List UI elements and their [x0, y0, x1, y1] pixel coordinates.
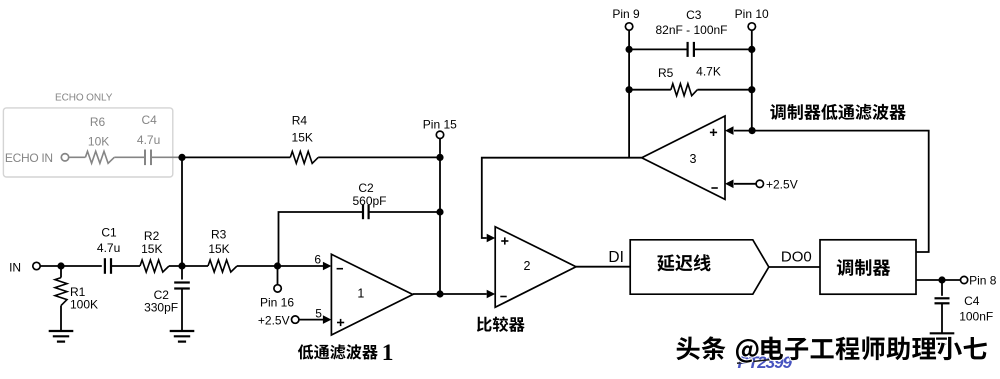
ECHO ONLY enclosure box — [3, 108, 172, 177]
wire pin 6 input — [278, 265, 324, 267]
svg-text:DO0: DO0 — [781, 249, 812, 266]
wire pin 5 input — [299, 319, 324, 321]
svg-text:4.7u: 4.7u — [97, 241, 120, 255]
wire — [114, 156, 145, 158]
svg-text:5: 5 — [315, 307, 322, 321]
svg-text:Pin 16: Pin 16 — [260, 295, 294, 309]
node op1 input junction — [274, 262, 281, 269]
svg-text:R3: R3 — [211, 228, 227, 242]
node C3 left — [626, 46, 633, 53]
svg-text:2: 2 — [524, 259, 531, 273]
svg-text:C2: C2 — [358, 181, 374, 195]
label 调制器低通滤波器 — [770, 104, 785, 120]
wire op2 output — [576, 266, 630, 268]
wire op1 output — [413, 293, 487, 295]
node C2 feedback junction — [436, 208, 443, 215]
wire from op3 output to op2 + input — [482, 158, 642, 238]
svg-text:+2.5V: +2.5V — [258, 313, 290, 327]
svg-text:IN: IN — [9, 260, 21, 274]
delay line block 延迟线 — [630, 240, 769, 294]
op-amp U2 — [495, 227, 576, 308]
svg-text:82nF - 100nF: 82nF - 100nF — [655, 23, 727, 37]
svg-text:1: 1 — [357, 287, 364, 301]
wire — [69, 156, 86, 158]
svg-text:Pin 8: Pin 8 — [969, 274, 997, 288]
node C3 right — [748, 46, 755, 53]
node Pin15 junction — [436, 154, 443, 161]
wire — [40, 265, 61, 267]
wire vertical from echo junction — [181, 157, 183, 266]
node Pin8 junction — [938, 276, 945, 283]
wire modulator feedback — [734, 131, 929, 252]
svg-text:C4: C4 — [142, 113, 158, 127]
wire — [169, 265, 208, 267]
+2.5V terminal (op3) — [734, 183, 756, 185]
wire — [237, 265, 278, 267]
svg-text:R6: R6 — [90, 115, 106, 129]
wire — [318, 156, 440, 158]
Pin 8 terminal — [961, 276, 968, 283]
svg-text:C1: C1 — [101, 226, 117, 240]
svg-text:Pin 15: Pin 15 — [423, 118, 457, 132]
svg-text:100nF: 100nF — [959, 309, 993, 323]
svg-text:Pin 10: Pin 10 — [735, 7, 769, 21]
wire Pin9 column — [628, 30, 630, 158]
node R5 right — [748, 86, 755, 93]
svg-text:R4: R4 — [292, 114, 308, 128]
node feedback junction — [749, 127, 756, 134]
svg-text:+2.5V: +2.5V — [766, 178, 798, 192]
svg-text:15K: 15K — [292, 131, 313, 145]
ground — [170, 330, 195, 332]
wire R4 row — [182, 156, 290, 158]
label 比较器 — [477, 317, 492, 332]
svg-text:ECHO IN: ECHO IN — [5, 151, 53, 165]
wire Pin 8 row — [916, 279, 960, 281]
svg-text:15K: 15K — [141, 242, 162, 256]
svg-text:10K: 10K — [88, 134, 109, 148]
svg-text:330pF: 330pF — [144, 300, 178, 314]
wire Pin10 column — [751, 30, 753, 130]
svg-text:R2: R2 — [144, 229, 160, 243]
svg-text:6: 6 — [314, 253, 321, 267]
svg-text:C3: C3 — [686, 8, 702, 22]
svg-text:DI: DI — [608, 249, 624, 266]
svg-text:Pin 9: Pin 9 — [612, 7, 640, 21]
Pin 16 terminal — [277, 266, 279, 285]
op-amp U3 — [642, 116, 725, 199]
watermark 头条 @电子工程师助理小七 — [676, 337, 699, 361]
wire — [61, 265, 102, 267]
svg-text:4.7K: 4.7K — [696, 64, 721, 78]
node R5 left — [626, 86, 633, 93]
svg-text:ECHO ONLY: ECHO ONLY — [55, 92, 113, 103]
svg-text:100K: 100K — [70, 298, 98, 312]
svg-text:R5: R5 — [658, 66, 674, 80]
svg-text:C4: C4 — [964, 294, 980, 308]
modulator block 调制器 — [820, 240, 916, 294]
ground — [49, 330, 74, 332]
label 低通滤波器1 — [298, 344, 313, 359]
node echo junction — [178, 154, 185, 161]
wire — [111, 265, 140, 267]
svg-text:1: 1 — [382, 340, 394, 366]
wire — [151, 156, 182, 158]
svg-text:4.7u: 4.7u — [137, 133, 160, 147]
ground — [930, 332, 955, 334]
node IN junction — [57, 262, 64, 269]
svg-text:3: 3 — [690, 152, 697, 166]
svg-text:15K: 15K — [208, 242, 229, 256]
wire — [769, 266, 820, 268]
node R2/R3 junction — [178, 262, 185, 269]
wire vertical Pin15 column — [439, 157, 441, 294]
node output junction — [436, 290, 443, 297]
op-amp U1 — [331, 254, 412, 335]
